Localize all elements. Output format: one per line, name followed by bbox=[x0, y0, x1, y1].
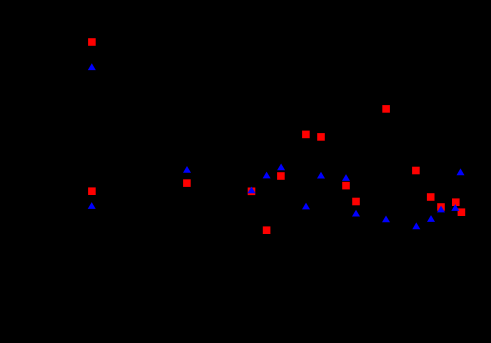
blue triangle point T2 bbox=[88, 202, 96, 209]
red square point S2 bbox=[88, 187, 96, 195]
blue triangle point T15 bbox=[382, 216, 390, 223]
red square point S15 bbox=[452, 198, 460, 206]
blue triangle point T7 bbox=[317, 172, 325, 179]
red square point S7 bbox=[248, 188, 256, 196]
blue triangle point T16 bbox=[412, 222, 420, 229]
red square point S4 bbox=[302, 131, 310, 139]
blue triangle point T13 bbox=[451, 204, 459, 211]
red square point S12 bbox=[412, 167, 420, 175]
red square point S6 bbox=[277, 172, 285, 180]
blue triangle point T14 bbox=[427, 215, 435, 222]
blue triangle point T9 bbox=[302, 203, 310, 210]
red square point S14 bbox=[437, 203, 445, 211]
red square point S9 bbox=[342, 182, 350, 190]
blue triangle point T12 bbox=[437, 206, 445, 213]
red square point S1 bbox=[88, 38, 96, 46]
red square point S13 bbox=[427, 193, 435, 201]
red square point S3 bbox=[183, 179, 191, 187]
blue triangle point T3 bbox=[183, 166, 191, 173]
blue triangle point T1 bbox=[88, 63, 96, 70]
red square point S8 bbox=[263, 226, 271, 234]
red square point S10 bbox=[352, 198, 360, 206]
blue triangle point T8 bbox=[342, 174, 350, 181]
blue triangle point T10 bbox=[352, 210, 360, 217]
blue triangle point T11 bbox=[457, 168, 465, 175]
red square point S16 bbox=[458, 208, 466, 216]
blue triangle point T4 bbox=[263, 172, 271, 179]
red square point S5 bbox=[317, 133, 325, 141]
blue triangle point T5 bbox=[277, 164, 285, 171]
blue triangle point T6 bbox=[248, 187, 256, 194]
red square point S11 bbox=[382, 105, 390, 113]
